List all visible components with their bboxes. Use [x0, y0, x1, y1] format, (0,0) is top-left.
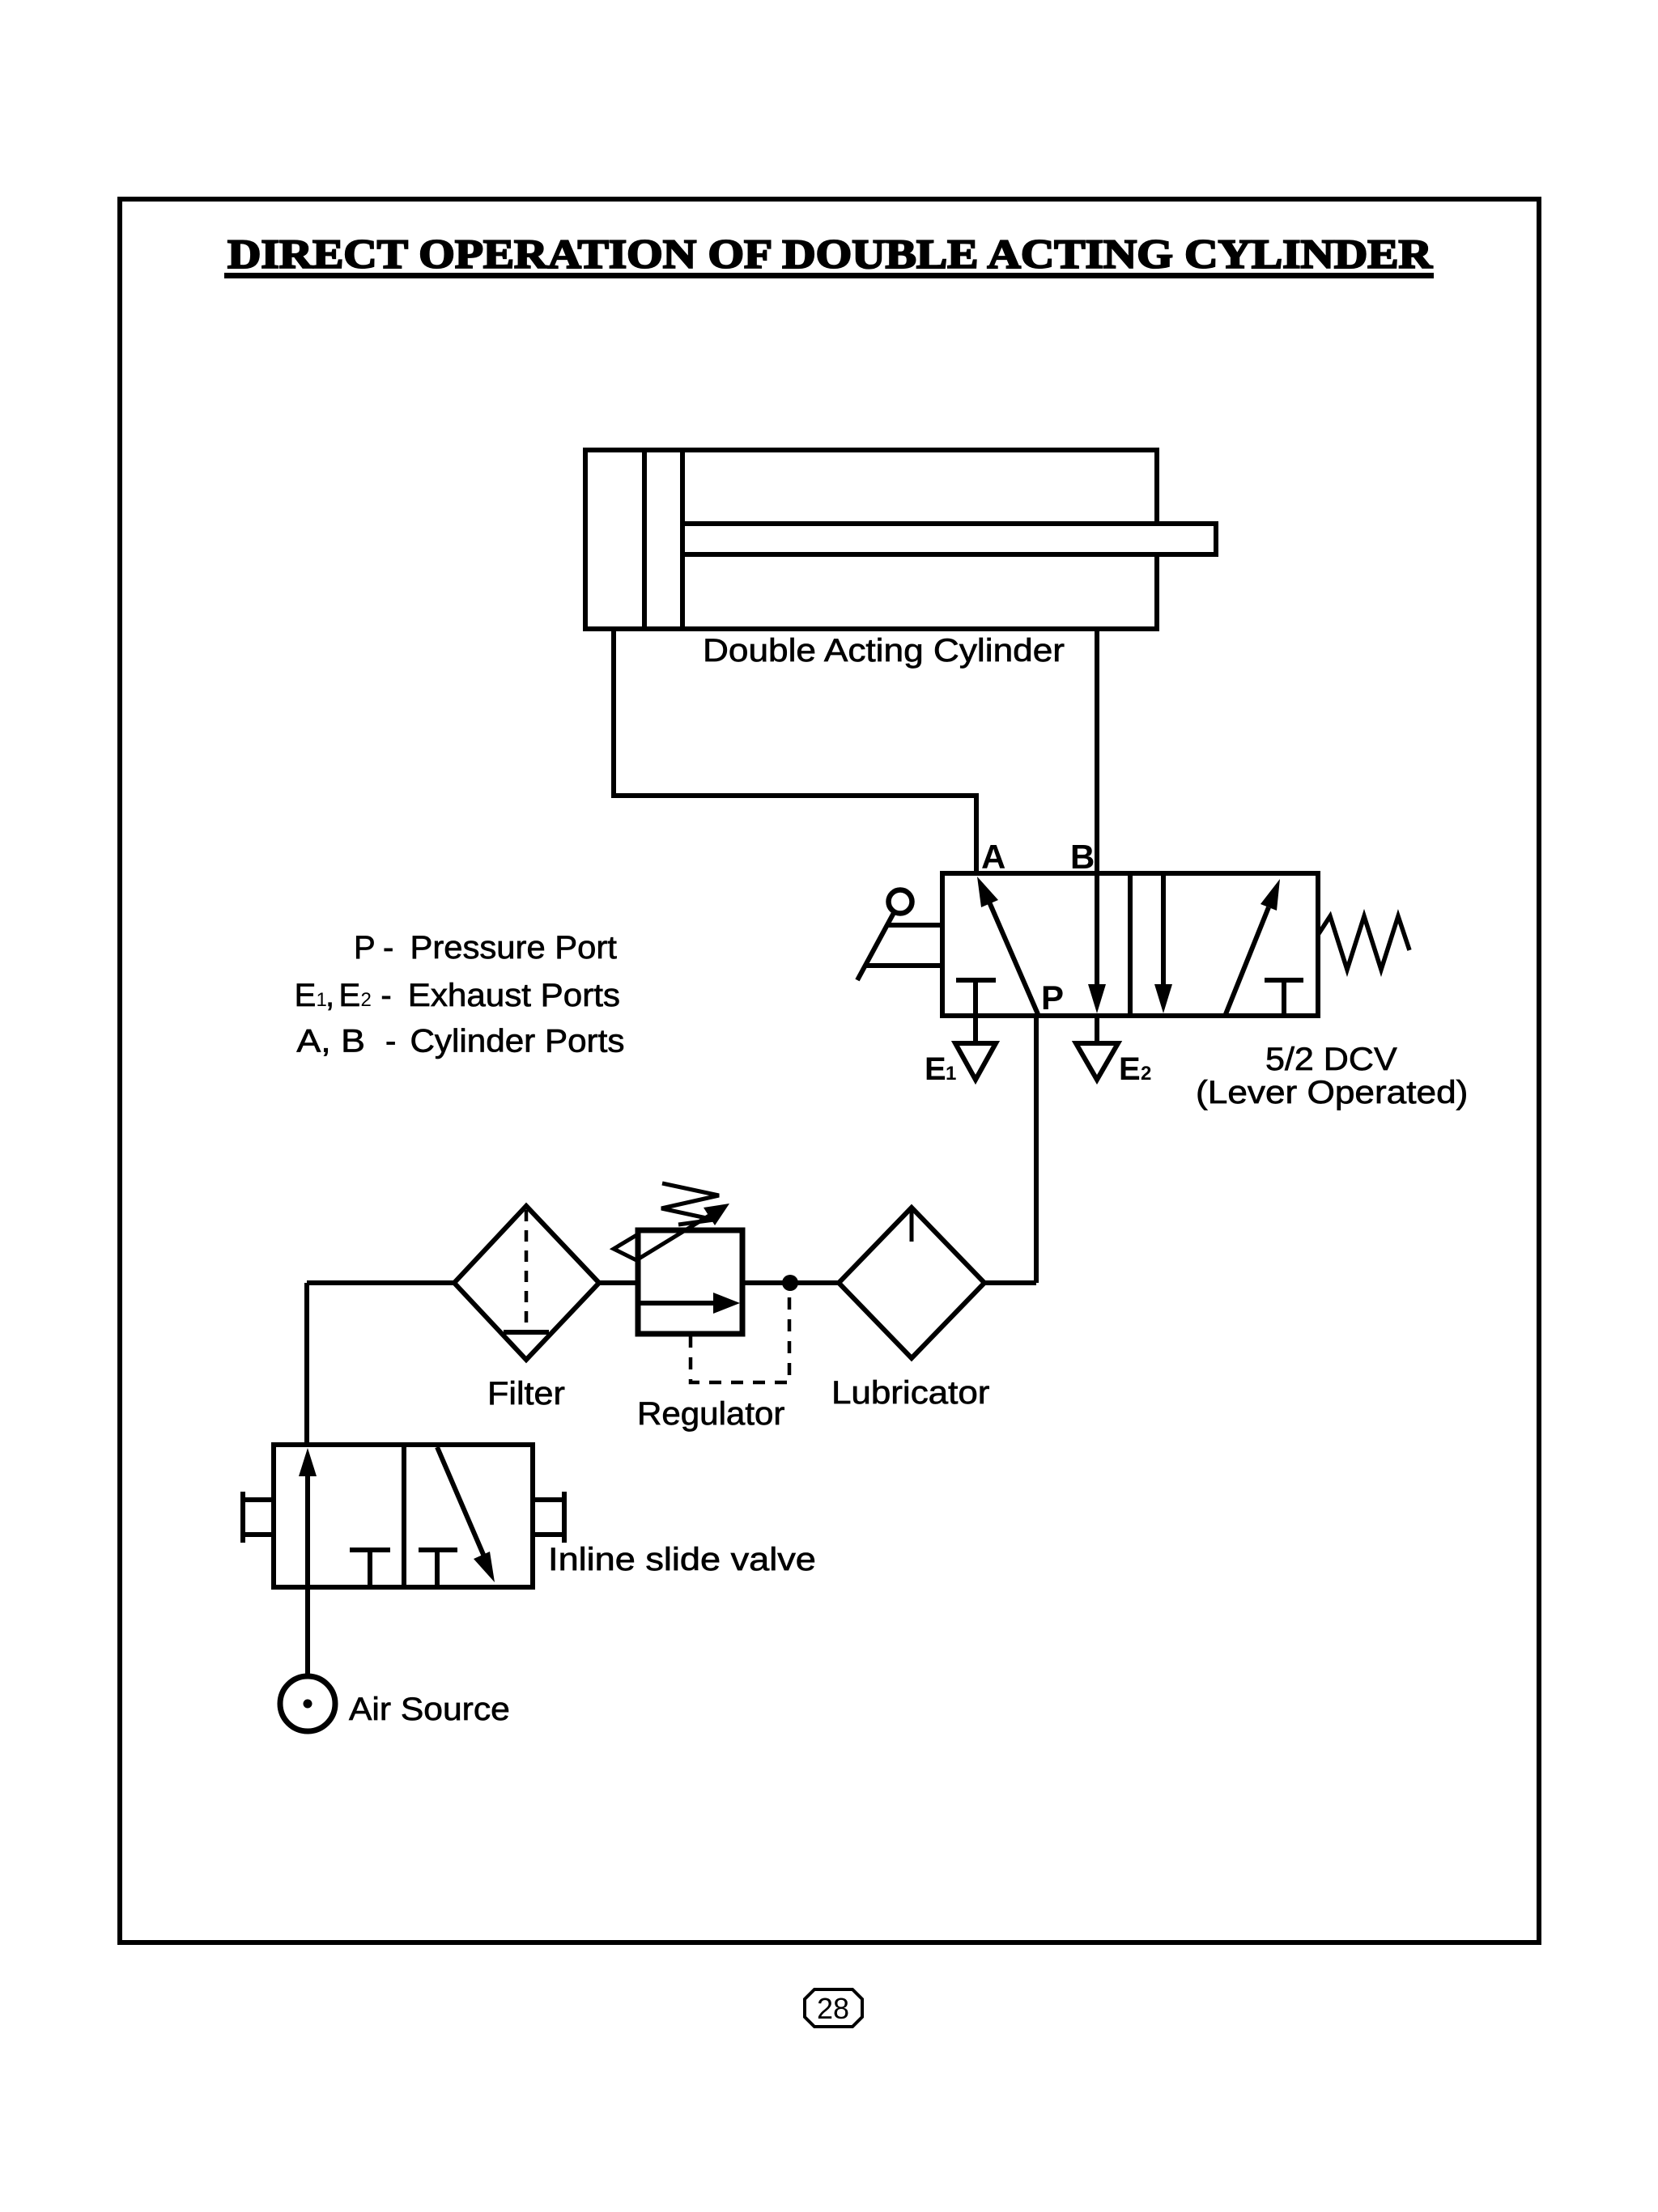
- wire regulator to lubricator: [742, 1280, 839, 1285]
- return spring: [1318, 916, 1409, 970]
- svg-text:Regulator: Regulator: [637, 1395, 784, 1432]
- regulator vent triangle: [614, 1234, 638, 1261]
- svg-text:Double Acting Cylinder: Double Acting Cylinder: [703, 632, 1065, 669]
- svg-text:1: 1: [946, 1063, 956, 1085]
- wire filter to regulator: [599, 1280, 638, 1285]
- valve right box: blocked port T: [1265, 980, 1303, 1016]
- wire air source feed horizontal: [307, 1280, 454, 1285]
- air source circle: [280, 1676, 335, 1731]
- lubricator drip element: [910, 1210, 914, 1242]
- svg-text:,: ,: [325, 978, 334, 1013]
- svg-text:(Lever Operated): (Lever Operated): [1196, 1074, 1468, 1110]
- piston rod: [682, 524, 1216, 554]
- regulator internal flow arrow: [638, 1293, 740, 1314]
- air source center dot: [304, 1700, 312, 1709]
- slide valve blocked T right: [419, 1550, 457, 1587]
- lubricator diamond: [839, 1208, 984, 1358]
- lever link bottom: [865, 963, 942, 968]
- wire A-side: cylinder to valve port A: [614, 629, 976, 876]
- regulator adjusting spring: [661, 1183, 719, 1225]
- svg-text:Pressure Port: Pressure Port: [410, 929, 618, 966]
- regulator dashed pilot line: [691, 1289, 789, 1382]
- slide valve blocked T left: [350, 1550, 390, 1587]
- valve right box: diagonal arrow: [1226, 879, 1280, 1014]
- slide valve flow up arrow: [299, 1448, 317, 1587]
- valve left box: flow line B down with arrowhead: [1088, 876, 1106, 1013]
- double acting cylinder body: [585, 450, 1157, 629]
- svg-text:Air Source: Air Source: [349, 1691, 510, 1727]
- slide valve left port stub: [243, 1492, 274, 1543]
- svg-text:Inline slide valve: Inline slide valve: [548, 1541, 816, 1577]
- svg-text:2: 2: [361, 989, 372, 1011]
- page border frame: [120, 199, 1539, 1942]
- svg-text:5/2 DCV: 5/2 DCV: [1265, 1040, 1397, 1076]
- svg-text:Lubricator: Lubricator: [831, 1374, 989, 1411]
- piston line 2: [680, 450, 685, 629]
- lever link top: [887, 923, 942, 928]
- slide valve divider: [402, 1445, 406, 1587]
- valve right box: straight down arrow: [1154, 876, 1172, 1013]
- filter dashed element: [525, 1210, 529, 1331]
- svg-text:A: A: [981, 838, 1005, 876]
- svg-text:Cylinder Ports: Cylinder Ports: [410, 1023, 624, 1059]
- svg-text:DIRECT OPERATION OF DOUBLE ACT: DIRECT OPERATION OF DOUBLE ACTING CYLIND…: [227, 231, 1433, 277]
- wire slide valve to air source: [305, 1587, 310, 1676]
- regulator body: [638, 1230, 742, 1334]
- legend line 2: [295, 977, 620, 1013]
- filter diamond: [454, 1206, 599, 1360]
- wire P to lubricator line: [1034, 1016, 1039, 1283]
- valve position divider: [1128, 873, 1133, 1016]
- regulator adjusting arrow: [636, 1204, 729, 1260]
- legend line 3: [296, 1023, 624, 1059]
- valve left box: flow arrow P to A: [977, 877, 1038, 1014]
- lever knob circle: [889, 890, 912, 914]
- inline slide valve body: [274, 1445, 533, 1587]
- svg-text:E: E: [1119, 1051, 1141, 1087]
- title: DIRECT OPERATION OF DOUBLE ACTING CYLINDER: [224, 231, 1434, 278]
- junction node dot: [782, 1275, 798, 1291]
- svg-text:P: P: [1041, 979, 1064, 1017]
- svg-text:-: -: [383, 930, 393, 966]
- valve left box: blocked port T: [956, 980, 996, 1016]
- filter sediment bar: [504, 1330, 549, 1335]
- wire lubricator to valve P: [984, 1280, 1036, 1285]
- svg-text:E: E: [295, 978, 317, 1013]
- exhaust E1 triangle: [955, 1043, 996, 1080]
- exhaust E2 triangle: [1076, 1043, 1118, 1080]
- wire down to slide valve: [304, 1283, 309, 1447]
- page number box: [805, 1989, 862, 2027]
- svg-text:-: -: [385, 1024, 396, 1059]
- svg-text:28: 28: [817, 1992, 849, 2025]
- svg-text:2: 2: [1141, 1063, 1151, 1085]
- slide valve diagonal arrow: [437, 1447, 495, 1582]
- valve 5/2 DCV body: [942, 873, 1318, 1016]
- lever arm: [857, 911, 895, 980]
- exhaust E1 stem: [973, 1016, 978, 1045]
- svg-text:B: B: [1070, 838, 1095, 876]
- wire B-side: cylinder to valve port B: [1095, 629, 1099, 876]
- svg-text:E: E: [339, 978, 361, 1013]
- svg-text:Exhaust Ports: Exhaust Ports: [408, 977, 620, 1013]
- exhaust E2 stem: [1095, 1016, 1099, 1045]
- svg-text:E: E: [925, 1051, 946, 1087]
- piston line 1: [642, 450, 647, 629]
- legend line 1: [354, 929, 618, 966]
- svg-text:P: P: [354, 930, 376, 966]
- svg-text:-: -: [380, 978, 391, 1013]
- svg-text:A, B: A, B: [296, 1023, 365, 1059]
- slide valve right port stub: [533, 1492, 564, 1543]
- svg-text:Filter: Filter: [487, 1374, 565, 1411]
